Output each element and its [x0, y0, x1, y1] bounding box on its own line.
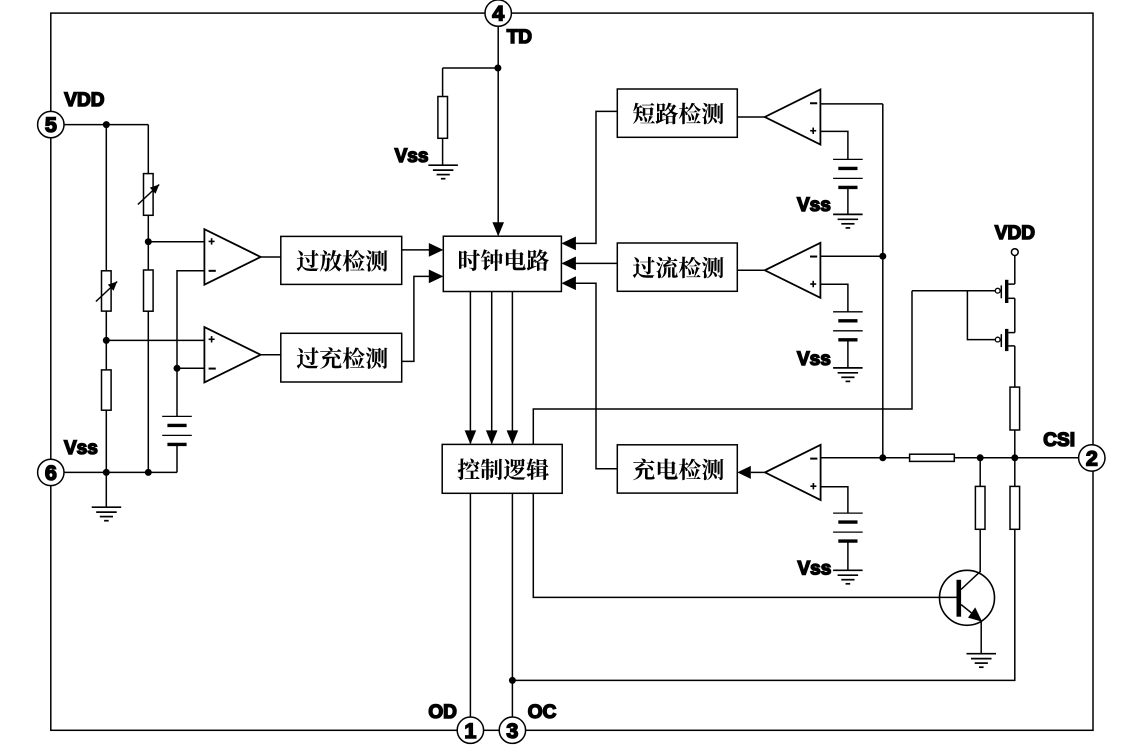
transistor M1 (PMOS)	[1005, 280, 1008, 303]
svg-text:Vss: Vss	[395, 146, 429, 167]
wire to ground G2	[105, 472, 107, 507]
svg-text:1: 1	[464, 719, 476, 743]
wire R3 to Vss line	[105, 410, 107, 472]
op-amp U5 (over-charge comparator)	[204, 327, 260, 382]
wire gate drive to logic	[533, 291, 912, 445]
op-amp U2 (over-current comparator)	[765, 243, 821, 298]
wire U3 - input	[821, 457, 883, 459]
wire charge det to clock	[563, 283, 618, 469]
wire U2 - input	[820, 255, 882, 257]
ground G3	[833, 213, 863, 215]
svg-text:VDD: VDD	[995, 223, 1035, 244]
wire Vss line from pin 6	[64, 471, 177, 473]
ground G4	[833, 367, 863, 369]
battery B1	[833, 158, 863, 160]
pin 4 (TD)	[485, 0, 511, 26]
node divider tap A	[145, 238, 152, 245]
wire logic to Q1 base	[533, 493, 956, 597]
svg-text:CSI: CSI	[1043, 430, 1075, 451]
svg-text:TD: TD	[507, 27, 532, 48]
node OC junction	[509, 677, 516, 684]
wire clock to logic 1	[469, 292, 471, 444]
thermistor RT1	[144, 174, 154, 216]
node Vss junction B	[103, 469, 110, 476]
wire over-discharge to clock	[402, 249, 442, 251]
wire TD branch left	[443, 67, 498, 69]
node TD junction	[494, 65, 501, 72]
wire R5 to Q1 collector	[961, 529, 980, 589]
pin 1 (OD)	[457, 717, 483, 743]
arrowhead into logic 1	[465, 430, 477, 444]
wire U1 output to block	[737, 116, 765, 118]
arrowhead into logic 3	[507, 430, 519, 444]
block control logic	[442, 444, 562, 493]
wire logic to pin 3 (OC)	[511, 493, 513, 717]
arrowhead into logic 2	[486, 430, 498, 444]
arrowhead into clock left 2	[429, 270, 444, 284]
block over-discharge detection	[281, 236, 402, 284]
node CSI junction 2	[977, 454, 984, 461]
wire junction 2 down	[979, 458, 981, 487]
svg-text:6: 6	[45, 461, 57, 485]
node divider tap B	[103, 337, 110, 344]
wire logic to pin 1 (OD)	[469, 493, 471, 717]
wire U2 output to block	[737, 269, 765, 271]
terminal VDD	[1011, 249, 1018, 256]
node reference junction	[174, 365, 181, 372]
wire U4 output	[261, 256, 281, 258]
node Vss junction A	[145, 469, 152, 476]
wire VDD rail from pin 5	[64, 124, 148, 126]
battery B2	[833, 311, 863, 313]
resistor R2	[144, 270, 154, 311]
resistor R7	[1010, 387, 1020, 430]
wire M1 source to M2 drain	[1014, 298, 1016, 332]
wire down to thermistor RT1	[147, 125, 149, 174]
pin 3 (OC)	[499, 717, 525, 743]
wire B2 to ground G4	[847, 340, 849, 368]
wire TD vertical from pin 4 to clock circuit	[497, 26, 499, 235]
op-amp U4 (over-discharge comparator)	[204, 229, 260, 285]
wire tap A to comparator U4 +	[148, 241, 204, 243]
node CSI junction 3	[1011, 454, 1018, 461]
arrowhead into clock right 3	[561, 276, 576, 290]
resistor R4 (CSI series)	[910, 454, 955, 461]
node CSI junction 1	[879, 454, 886, 461]
wire B3 to ground G5	[847, 541, 849, 570]
wire battery B4 to Vss line	[176, 444, 178, 472]
wire OC to sense resistor R6	[512, 529, 1014, 680]
thermistor RT2	[102, 271, 112, 311]
wire U1 - input	[820, 103, 882, 105]
wire over-current det to clock	[563, 262, 618, 264]
resistor R6	[1010, 486, 1020, 529]
wire clock to logic 3	[511, 292, 513, 444]
battery B3	[833, 512, 863, 514]
svg-text:2: 2	[1086, 447, 1098, 471]
wire U2 + input to battery B2	[820, 284, 848, 312]
svg-text:VDD: VDD	[64, 90, 104, 111]
wire CSI line left	[883, 457, 910, 459]
wire clock to logic 2	[491, 292, 493, 444]
wire RT2 to R3	[105, 311, 107, 370]
pin 6 (Vss)	[38, 459, 64, 485]
op-amp U3 (charge comparator)	[765, 445, 821, 500]
transistor M2 (PMOS)	[1005, 329, 1008, 351]
block over-charge detection	[281, 333, 402, 382]
transistor Q1 (NPN)	[940, 570, 995, 625]
block short-circuit detection	[617, 89, 737, 137]
wire comparator bus vertical	[882, 104, 884, 458]
ground G6	[967, 653, 997, 655]
resistor R5	[975, 486, 985, 529]
wire U5 output	[261, 354, 281, 356]
wire tap B to comparator U5 +	[106, 339, 204, 341]
svg-text:OC: OC	[528, 702, 557, 723]
block over-current detection	[617, 243, 737, 291]
wire VDD to M1 drain	[1014, 256, 1016, 285]
wire M2 gate branch	[967, 291, 995, 340]
arrowhead into clock right 1	[561, 237, 576, 251]
arrowhead into clock circuit top	[492, 222, 504, 236]
svg-text:3: 3	[506, 719, 518, 743]
svg-text:Vss: Vss	[797, 349, 831, 370]
wire M1 gate	[912, 290, 995, 292]
wire RT1 to R2	[147, 215, 149, 270]
wire R1 to ground	[442, 138, 444, 165]
wire short-circuit det to clock	[563, 111, 618, 243]
wire U4 - to reference rail	[177, 271, 204, 417]
wire R2 to Vss line	[147, 311, 149, 472]
wire VDD rail down to RT2	[105, 125, 107, 271]
pin 5 (VDD)	[38, 111, 64, 137]
wire CSI line right	[954, 457, 1078, 459]
wire down to resistor R1	[442, 68, 444, 97]
wire junction 3 down	[1014, 458, 1016, 487]
wire Q1 emitter to ground	[980, 621, 982, 654]
arrowhead into clock left 1	[429, 243, 444, 257]
ground G2	[92, 506, 122, 508]
svg-text:Vss: Vss	[64, 438, 98, 459]
svg-text:OD: OD	[428, 702, 457, 723]
battery B4 (left reference)	[162, 415, 192, 417]
wire R7 to CSI line	[1014, 430, 1016, 458]
node VDD rail junction	[103, 121, 110, 128]
svg-text:Vss: Vss	[798, 559, 832, 580]
block clock circuit	[443, 236, 561, 291]
node U2 - junction	[879, 253, 886, 260]
pin 2 (CSI)	[1079, 445, 1105, 471]
wire U1 + input to battery B1	[820, 131, 848, 159]
wire U5 - to reference rail	[177, 367, 204, 369]
svg-text:Vss: Vss	[797, 195, 831, 216]
svg-text:4: 4	[492, 2, 504, 26]
resistor R3	[102, 370, 112, 410]
block charge detection	[617, 445, 737, 493]
resistor R1 (TD)	[438, 97, 448, 139]
wire M2 source to R7	[1014, 346, 1016, 387]
wire over-charge to clock	[402, 276, 442, 361]
arrowhead into clock right 2	[561, 257, 576, 271]
ground G1	[428, 164, 458, 166]
ground G5	[833, 569, 863, 571]
wire U3 output	[751, 471, 765, 473]
svg-text:5: 5	[45, 113, 57, 137]
op-amp U1 (short-circuit comparator)	[765, 90, 821, 145]
arrowhead into charge det block	[737, 466, 751, 479]
wire B1 to ground G3	[847, 187, 849, 214]
wire U3 + input to battery B3	[821, 487, 848, 513]
